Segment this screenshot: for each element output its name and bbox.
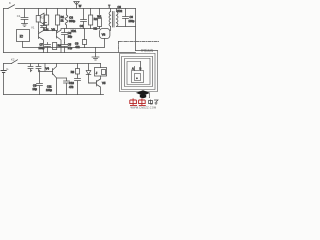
switch K2 [12,60,18,64]
wire to box [140,62,142,71]
diode VD [88,64,90,71]
svg-text:VD1: VD1 [71,29,77,33]
svg-text:17p: 17p [68,46,73,50]
coil box [132,71,144,83]
resistor R4 [90,9,92,16]
svg-text:V1: V1 [31,26,35,30]
dash-dot boundary [119,41,160,43]
watermark dark chars [149,100,159,106]
loop turn 2 [122,54,156,90]
svg-text:W1: W1 [97,14,102,18]
inductor L1 [66,9,68,16]
svg-text:C9: C9 [75,42,79,46]
watermark red chars [130,98,146,105]
svg-text:C10: C10 [69,81,74,85]
svg-text:R2: R2 [40,15,44,19]
svg-text:473: 473 [69,85,74,89]
wire [85,39,105,48]
wire mid right [62,28,100,30]
capacitor C10 [64,78,70,95]
wire left edge [3,64,5,71]
wire left edge top circuit [3,9,5,53]
resistor R2 [46,9,48,16]
capacitor Cb [36,64,41,72]
wire bottom rail [4,94,104,96]
svg-text:C1: C1 [17,14,21,18]
svg-text:R6: R6 [58,44,62,48]
loop turn 4 [127,59,150,85]
capacitor C8 [37,72,43,95]
svg-text:C8: C8 [33,83,37,87]
capacitor C2 [41,26,47,28]
svg-text:V3: V3 [102,32,106,36]
svg-text:C6: C6 [118,5,122,9]
svg-text:472: 472 [75,45,80,49]
wire right edge top circuit [135,9,137,51]
switch K1 [8,5,15,9]
resistor R7 [84,29,86,40]
resistor R1 [57,9,59,16]
svg-text:K2: K2 [11,57,15,61]
svg-text:环形天线: 环形天线 [141,48,153,53]
wire from IC bottom [23,42,85,48]
loop turn 3 [125,57,153,87]
potentiometer W1 [99,9,101,15]
capacitor C4b [62,29,68,43]
svg-text:100p: 100p [39,46,45,50]
svg-text:N1: N1 [94,26,98,30]
svg-text:C6: C6 [130,15,134,19]
svg-text:V5: V5 [102,81,106,85]
svg-text:G: G [6,67,8,71]
IC box [17,30,30,42]
svg-text:360p: 360p [69,19,76,23]
ground bottom rail [92,53,99,61]
loop turn 1 [120,51,158,92]
svg-text:V2: V2 [52,27,56,31]
svg-text:WWW.CNDZZ.COM: WWW.CNDZZ.COM [131,106,157,109]
resistor R6 [53,43,57,50]
battery G [1,71,6,73]
svg-text:C4: C4 [80,24,84,28]
microphone B [38,9,40,16]
svg-text:VD2: VD2 [117,9,123,13]
svg-text:C7: C7 [40,43,44,47]
svg-text:R8: R8 [71,70,75,74]
wire bottom rail top circuit [4,52,136,54]
capacitor Ca [28,64,33,72]
svg-text:B: B [41,24,43,28]
svg-text:100μ: 100μ [46,88,52,92]
transistor V5 [96,81,98,87]
capacitor C7 [45,43,51,53]
svg-text:A: A [132,66,134,70]
svg-text:C5: C5 [68,43,72,47]
transistor V1 [38,32,40,39]
capacitor C6 [125,9,127,17]
relay J [95,68,107,77]
wire antenna lead [136,50,158,52]
wire top rail [16,8,136,10]
watermark cap icon [136,90,150,98]
wire top rail bottom circuit [4,63,12,65]
component labels K C1 B R2 V1 K2 G [6,1,44,71]
resistor R8 [77,64,79,69]
svg-text:V4: V4 [46,66,50,70]
wire top rail left [4,8,9,10]
svg-text:K: K [9,1,11,5]
svg-text:100p: 100p [129,19,135,23]
antenna [76,2,78,8]
svg-text:10μ: 10μ [33,87,38,91]
wire mid left [44,30,57,32]
capacitor C5 [62,43,68,53]
svg-text:15p: 15p [68,34,73,38]
svg-text:T: T [108,4,110,8]
svg-text:C11: C11 [47,85,52,89]
capacitor C1 [24,9,26,18]
ground [22,24,28,27]
svg-text:0.01: 0.01 [44,28,49,31]
capacitor C4 [83,9,85,20]
svg-text:B: B [140,66,142,70]
